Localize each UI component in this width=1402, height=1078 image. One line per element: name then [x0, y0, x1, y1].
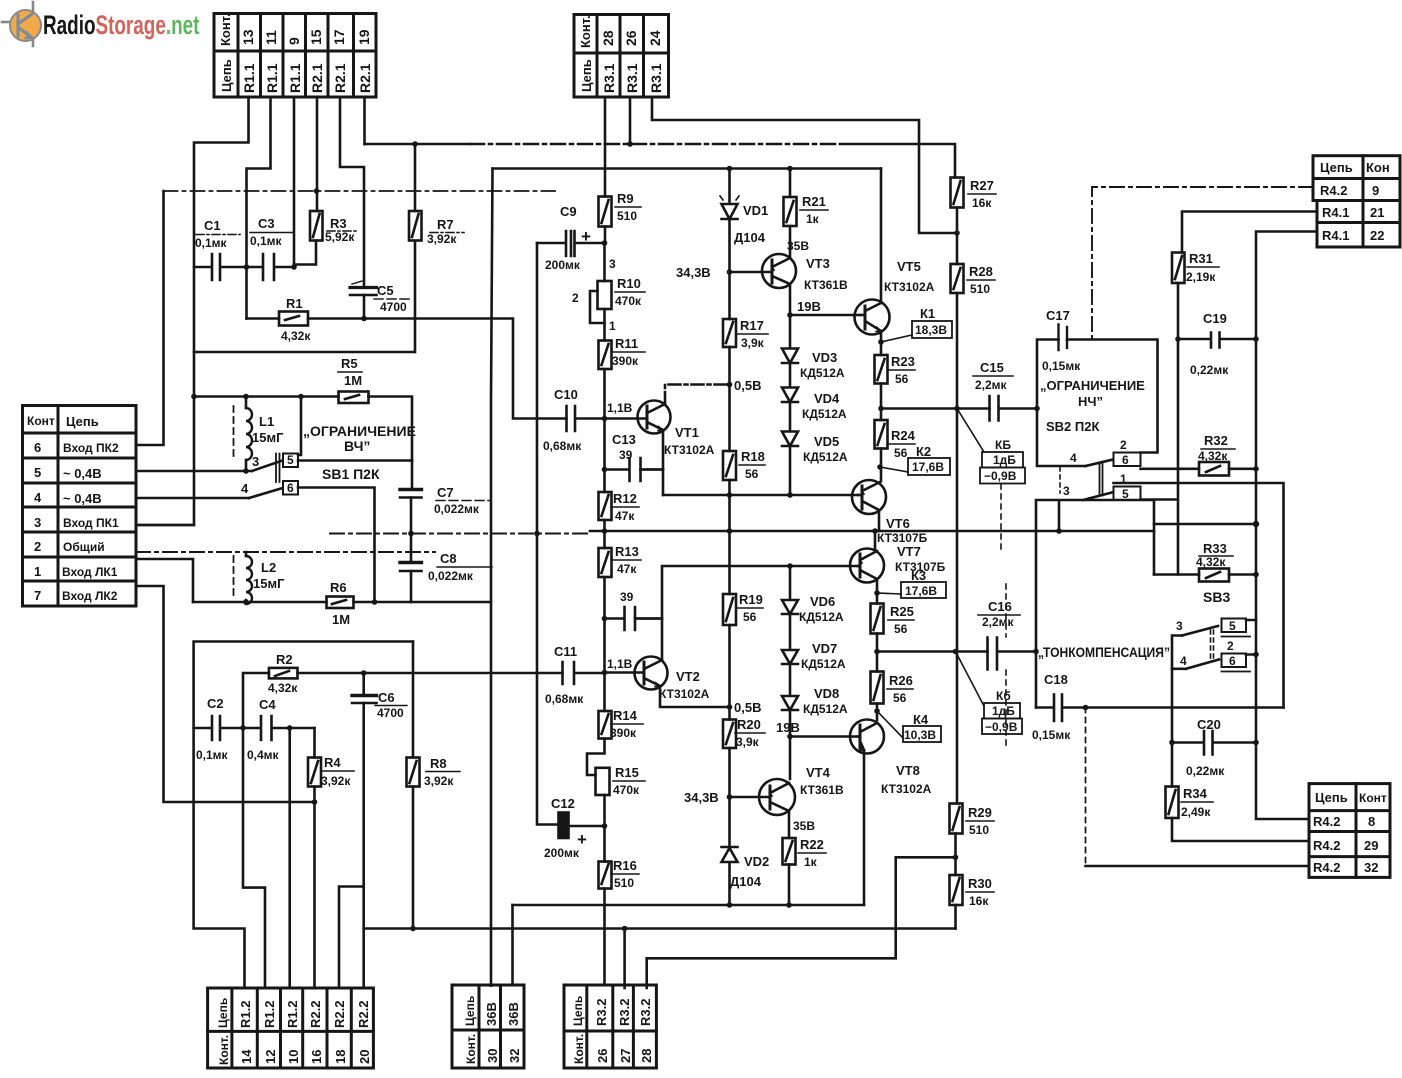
wire C6 bottom jog to table pin18: [339, 887, 364, 989]
svg-text:Д104: Д104: [734, 230, 766, 245]
resistor R15 (trimmer): [587, 739, 605, 776]
wire SB1 pin5 riser: [298, 397, 301, 456]
svg-text:КТ3102А: КТ3102А: [659, 687, 710, 701]
wire C16 node line: [877, 650, 988, 653]
wire X3.1 pin24 down right to R27/R28 junction: [652, 97, 957, 233]
svg-text:R18: R18: [741, 449, 765, 464]
rail A y144 solid part: [365, 143, 471, 146]
svg-text:10,3В: 10,3В: [904, 728, 936, 742]
svg-text:2: 2: [1120, 438, 1127, 452]
svg-text:VT1: VT1: [675, 425, 699, 440]
resistor R14: [599, 711, 612, 739]
wire Общий dash-dot y533.5 to C9 rail: [330, 533, 590, 535]
wire pin12 riser (C2/C4 node down): [243, 728, 265, 988]
wire X1 pin11 down to C3 left node: [247, 97, 271, 319]
wire row1 ВходЛК1 to R6 line: [136, 559, 193, 602]
svg-text:16к: 16к: [972, 196, 992, 210]
diode VD7: [782, 614, 798, 664]
big loop top wire: [194, 642, 413, 989]
svg-text:VT2: VT2: [676, 669, 700, 684]
svg-text:R1.2: R1.2: [285, 1001, 300, 1028]
svg-text:R12: R12: [613, 491, 637, 506]
resistor R21: [784, 197, 797, 226]
capacitor C15: [990, 396, 1038, 421]
svg-text:КТ3102А: КТ3102А: [881, 782, 932, 796]
svg-text:„ОГРАНИЧЕНИЕ: „ОГРАНИЧЕНИЕ: [1040, 378, 1145, 393]
svg-text:VT3: VT3: [806, 256, 830, 271]
svg-text:C7: C7: [437, 485, 454, 500]
switch SB3: [1203, 589, 1230, 605]
svg-text:VD2: VD2: [744, 854, 769, 869]
svg-text:R32: R32: [1204, 433, 1228, 448]
logo text: [43, 10, 200, 40]
svg-text:Конт.: Конт.: [217, 1035, 231, 1065]
svg-text:R24: R24: [891, 428, 916, 443]
svg-text:24: 24: [647, 30, 663, 46]
KB upper measure box: [957, 409, 984, 453]
svg-text:R13: R13: [615, 544, 639, 559]
svg-text:470к: 470к: [615, 294, 642, 308]
svg-text:VT8: VT8: [896, 763, 920, 778]
resistor R30: [950, 875, 963, 905]
wire X1 pin9 down to C3 right node: [293, 97, 296, 267]
wire VT1 collector up to 0,5B node: [665, 385, 728, 405]
wire VT2 base lead from rail: [603, 673, 606, 712]
resistor R34: [1171, 743, 1174, 787]
svg-text:9: 9: [1372, 183, 1379, 198]
svg-text:R4: R4: [324, 755, 341, 770]
connector table R4.2 (bottom right pins 8,29,32): [1309, 784, 1390, 878]
svg-text:47к: 47к: [615, 509, 635, 523]
svg-text:R3: R3: [330, 216, 347, 231]
resistor R17: [728, 272, 731, 319]
svg-text:0,1мк: 0,1мк: [195, 236, 228, 250]
svg-text:Конт: Конт: [1359, 791, 1387, 805]
node dot C12 right: [602, 823, 608, 829]
svg-text:3,92к: 3,92к: [321, 774, 351, 788]
wire R21 top to rail B: [789, 169, 792, 198]
wire y495 line (VT1 emitter to VT6 base): [663, 494, 858, 497]
switch SB1 contact 4-6: [249, 489, 281, 499]
node dot C14 left: [602, 616, 608, 622]
svg-text:R17: R17: [740, 318, 764, 333]
svg-text:13: 13: [240, 29, 256, 45]
svg-text:КД512А: КД512А: [803, 702, 848, 716]
label Ограничение ВЧ: [303, 423, 416, 482]
rail B y168.5 from corner x492.5 to VT5 collector: [493, 167, 882, 170]
switch SB1 contact 3-5: [252, 461, 281, 471]
svg-text:R1.1: R1.1: [264, 63, 280, 93]
connector table X6 (R3.2 pins 26,27,28): [564, 985, 656, 1068]
capacitor C12 electrolytic: [559, 813, 569, 839]
rail x537 from C9 down to C12: [537, 243, 559, 825]
wire R6 line y602: [193, 601, 491, 604]
svg-text:R33: R33: [1203, 541, 1227, 556]
resistor R28: [951, 264, 964, 293]
wire VT2 collector up to y566 line: [662, 566, 858, 660]
node dot pin6/R6 line: [372, 599, 378, 605]
wire R34 bottom to pin29 row: [1172, 818, 1309, 841]
svg-text:12: 12: [263, 1050, 278, 1064]
svg-text:39: 39: [620, 590, 634, 604]
svg-text:Кон: Кон: [1366, 160, 1390, 175]
wire VT2 emitter down to 0,5B lower node: [660, 686, 728, 707]
svg-text:R34: R34: [1183, 786, 1208, 801]
svg-text:56: 56: [745, 467, 759, 481]
svg-text:510: 510: [969, 823, 989, 837]
wire Тонкомпенсация block: [1036, 500, 1154, 708]
svg-text:C2: C2: [207, 696, 224, 711]
svg-text:36В: 36В: [484, 1002, 499, 1026]
connector table X2 (left: Конт/Цепь rows 6,5,4,3,2,1,7): [23, 406, 137, 607]
svg-text:Цепь: Цепь: [579, 59, 594, 92]
svg-text:C10: C10: [554, 387, 578, 402]
node dot R7/railA: [412, 141, 418, 147]
node dot R2 net / C6 top: [361, 670, 367, 676]
wire R29 long riser label on chain done; resistor R29: [950, 804, 963, 834]
svg-text:+: +: [581, 227, 591, 246]
svg-text:R2.1: R2.1: [357, 63, 373, 93]
svg-text:L2: L2: [261, 560, 276, 575]
svg-text:9: 9: [286, 37, 302, 45]
wire R28 bottom to C15 node: [956, 293, 959, 409]
wire R16 bottom to table pin26: [603, 889, 606, 986]
svg-text:4,32к: 4,32к: [1198, 449, 1228, 463]
svg-text:36В: 36В: [506, 1002, 521, 1026]
resistor R10 (trimmer): [598, 281, 612, 309]
connector table X5 (36V supply): [452, 985, 524, 1068]
inductor L1: [234, 397, 253, 472]
wire rail905 left end down to pin32: [511, 905, 514, 985]
svg-text:R3.2: R3.2: [594, 999, 609, 1026]
wire SB1 pin5 lead right to C7 riser: [298, 459, 412, 462]
wire X1 pin15 down to R3 top: [316, 97, 319, 211]
svg-text:17: 17: [331, 29, 347, 45]
wire C19/R31 rail down to R33 left: [1177, 339, 1180, 575]
svg-text:6: 6: [34, 440, 41, 455]
svg-text:Цепь: Цепь: [1320, 160, 1353, 175]
svg-text:КТ3107Б: КТ3107Б: [877, 531, 928, 545]
svg-text:32: 32: [1364, 860, 1378, 875]
svg-text:4: 4: [241, 481, 249, 496]
svg-text:ВЧ”: ВЧ”: [344, 438, 370, 454]
svg-text:2,19к: 2,19к: [1186, 270, 1216, 284]
svg-text:18,3В: 18,3В: [915, 323, 947, 337]
svg-text:19: 19: [356, 29, 372, 45]
svg-text:C9: C9: [560, 204, 577, 219]
wire R16 top: [603, 826, 606, 862]
resistor R13: [599, 548, 612, 577]
capacitor C1: [194, 254, 247, 280]
svg-text:R2.2: R2.2: [308, 1001, 323, 1028]
T junction C13 right on emitter lead: [641, 468, 664, 471]
diode VD1: [722, 169, 738, 273]
wire VT3 emitter to 19B node: [789, 284, 792, 315]
svg-text:Вход ЛК2: Вход ЛК2: [62, 589, 118, 603]
svg-text:SB1 П2К: SB1 П2К: [322, 466, 380, 482]
connector table X4 (bottom left R1.2/R2.2): [208, 988, 374, 1068]
node dot on shield line at R3 riser: [314, 188, 320, 194]
svg-text:1к: 1к: [804, 855, 818, 869]
svg-text:32: 32: [507, 1049, 522, 1063]
svg-text:К1: К1: [920, 306, 935, 321]
wire R10-R11: [603, 309, 606, 341]
capacitor C3: [247, 254, 295, 280]
svg-text:Вход ПК2: Вход ПК2: [63, 441, 119, 455]
svg-text:510: 510: [970, 282, 990, 296]
svg-text:3: 3: [1176, 619, 1183, 633]
capacitor C14: [605, 607, 663, 630]
wire VD5 bottom to y495: [789, 446, 792, 495]
resistor R11: [599, 341, 612, 370]
capacitor C13: [605, 458, 664, 481]
diode VD5: [782, 402, 798, 446]
svg-text:R16: R16: [613, 858, 637, 873]
node dot C3 right: [291, 264, 297, 270]
svg-text:390к: 390к: [612, 354, 639, 368]
resistor R9: [599, 197, 612, 227]
resistor R31: [1182, 212, 1317, 253]
rail D x491 vertical from rail B down to 36V table pin30: [491, 169, 493, 986]
SB2 contact 3-5: [1083, 493, 1112, 501]
wire SB3 contact3 to common riser: [1172, 636, 1186, 669]
capacitor C18: [1036, 695, 1284, 722]
svg-text:C4: C4: [259, 697, 276, 712]
svg-text:1: 1: [34, 564, 41, 579]
wire X3.1 pin28 down to R9: [604, 97, 607, 197]
resistor R24: [880, 409, 883, 421]
resistor R25: [871, 604, 884, 634]
svg-text:16к: 16к: [969, 894, 989, 908]
svg-text:1М: 1М: [332, 612, 350, 627]
dashed drop to pin32 row: [1085, 708, 1087, 867]
svg-text:17,6В: 17,6В: [912, 460, 944, 474]
svg-text:0,15мк: 0,15мк: [1032, 728, 1071, 742]
svg-text:4: 4: [1180, 654, 1187, 668]
wire R25 bottom to C16 node: [876, 634, 879, 652]
wire row6 ВходПК2 up to shield line: [136, 191, 164, 445]
svg-text:VT7: VT7: [897, 544, 921, 559]
svg-text:Общий: Общий: [63, 540, 105, 554]
connector table X3.1 (pins 28,26,24): [574, 15, 669, 98]
svg-text:510: 510: [614, 876, 634, 890]
svg-text:Цепь: Цепь: [219, 59, 234, 92]
svg-text:Цепь: Цепь: [216, 998, 230, 1028]
wire long riser C15 node down to R29: [956, 409, 959, 804]
svg-text:Д104: Д104: [730, 874, 762, 889]
wire R2 right to C11 left plate: [298, 672, 563, 675]
resistor R23: [880, 342, 883, 355]
wire C15 node line: [881, 407, 990, 410]
svg-text:4700: 4700: [380, 300, 407, 314]
svg-text:2: 2: [34, 539, 41, 554]
svg-text:C12: C12: [551, 796, 575, 811]
svg-text:R4.1: R4.1: [1322, 228, 1349, 243]
svg-text:4: 4: [1070, 451, 1077, 465]
wire VD8 bottom to VT8 base node and VT4 collector: [789, 710, 792, 779]
svg-text:R30: R30: [968, 876, 992, 891]
wire X1 pin13 down-left to left rail: [136, 97, 249, 525]
svg-text:1,1В: 1,1В: [607, 657, 633, 671]
svg-text:R1: R1: [286, 296, 303, 311]
resistor R2: [269, 668, 298, 679]
transistor VT8: [850, 720, 884, 754]
svg-text:R1.1: R1.1: [287, 63, 303, 93]
node dot top net at left rail: [191, 394, 197, 400]
wire R13 bottom down: [603, 577, 606, 673]
dash-dot pin9 shield line: [1092, 187, 1313, 340]
K1 measure box: [881, 335, 912, 342]
svg-text:VT6: VT6: [886, 516, 910, 531]
capacitor C19: [1178, 333, 1256, 348]
svg-text:3,9к: 3,9к: [741, 336, 765, 350]
diode VD4: [782, 363, 798, 402]
connector table X1 (R1.1/R2.1 pins 13,11,9,15,17,19): [214, 14, 376, 98]
svg-text:C11: C11: [554, 644, 577, 659]
svg-text:К2: К2: [916, 444, 931, 459]
svg-text:C13: C13: [612, 432, 636, 447]
svg-text:11: 11: [263, 30, 279, 45]
svg-text:8: 8: [1368, 814, 1375, 829]
svg-text:510: 510: [617, 209, 637, 223]
svg-text:„ОГРАНИЧЕНИЕ: „ОГРАНИЧЕНИЕ: [303, 423, 416, 439]
svg-text:R3.2: R3.2: [617, 999, 632, 1026]
T junction C14 right on VT2 collector: [635, 617, 662, 620]
svg-text:390к: 390к: [610, 726, 637, 740]
svg-text:17,6В: 17,6В: [905, 584, 937, 598]
resistor R33: [1154, 573, 1199, 576]
node dot C5 bottom on R1 net: [361, 316, 367, 322]
svg-text:R27: R27: [970, 178, 994, 193]
svg-text:34,3В: 34,3В: [684, 790, 719, 805]
svg-text:R6: R6: [330, 580, 347, 595]
wire right rail down to pin8 row: [1256, 743, 1309, 820]
svg-text:0,022мк: 0,022мк: [428, 569, 474, 583]
svg-text:КБ: КБ: [995, 438, 1011, 452]
svg-text:Конт.: Конт.: [218, 13, 233, 46]
svg-text:C18: C18: [1044, 672, 1068, 687]
resistor R22: [783, 838, 796, 865]
node dot VD1 top rail B: [727, 166, 733, 172]
svg-text:К3: К3: [911, 568, 926, 583]
wire VT8 base lead: [790, 735, 858, 738]
svg-text:3,92к: 3,92к: [427, 232, 457, 246]
svg-text:2: 2: [1227, 639, 1234, 653]
svg-text:2: 2: [572, 291, 579, 305]
svg-text:VD1: VD1: [743, 203, 768, 218]
svg-text:R1.2: R1.2: [238, 1001, 253, 1028]
wire X3.1 pin26 down to rail A: [629, 97, 632, 144]
diode VD8: [782, 664, 798, 710]
svg-text:C17: C17: [1046, 308, 1070, 323]
SB2 dashed link: [1059, 467, 1061, 493]
node dot R27-R28 junction: [954, 230, 960, 236]
resistor R5: [339, 392, 369, 404]
wire VT8 emitter down to rail905: [863, 751, 866, 905]
wire 19B node to VT5 base: [790, 314, 860, 317]
svg-text:Цепь: Цепь: [571, 996, 585, 1026]
svg-text:R4.2: R4.2: [1313, 860, 1340, 875]
svg-text:16: 16: [309, 1050, 324, 1064]
svg-text:0,68мк: 0,68мк: [545, 692, 584, 706]
wire VT7 top from mid rail: [874, 531, 877, 549]
inductor L2: [234, 552, 253, 604]
svg-text:3,9к: 3,9к: [736, 735, 760, 749]
svg-text:КТ3102А: КТ3102А: [884, 280, 935, 294]
svg-text:R3.1: R3.1: [624, 63, 640, 93]
svg-text:L1: L1: [259, 414, 274, 429]
wire VT1 emitter down to y495 line: [662, 430, 665, 495]
resistor R1: [279, 312, 308, 326]
wire R18 bottom to y495: [728, 480, 731, 594]
svg-text:Вход ПК1: Вход ПК1: [63, 516, 119, 530]
node dot C2/C4/R2: [240, 725, 246, 731]
wire R23 bottom to C15 node: [880, 384, 883, 409]
svg-text:5: 5: [34, 465, 41, 480]
svg-text:200мк: 200мк: [545, 258, 581, 272]
capacitor C8: [410, 534, 413, 563]
wire VT7 bottom to R25 / K3 leader: [876, 579, 879, 604]
svg-text:2,49к: 2,49к: [1181, 805, 1211, 819]
node dot 0,5B upper: [728, 347, 731, 385]
svg-text:27: 27: [618, 1049, 633, 1063]
svg-text:56: 56: [895, 372, 909, 386]
capacitor C7: [411, 461, 414, 490]
svg-text:C8: C8: [440, 551, 457, 566]
node dot VD2/rail905: [727, 902, 733, 908]
svg-text:VD4: VD4: [814, 391, 840, 406]
resistor R12: [599, 492, 612, 520]
right rail x1253.5: [1255, 469, 1258, 743]
resistor R26: [876, 652, 879, 672]
svg-text:15мГ: 15мГ: [253, 576, 285, 591]
svg-text:VD8: VD8: [814, 686, 839, 701]
node dot R4 bottom / row7 line: [312, 799, 318, 805]
svg-text:56: 56: [894, 622, 908, 636]
node dot R8 bottom on rail929: [410, 926, 416, 932]
svg-text:НЧ”: НЧ”: [1078, 394, 1103, 409]
svg-text:R19: R19: [739, 592, 763, 607]
wire R27-R28: [956, 208, 959, 265]
svg-text:4: 4: [34, 490, 42, 505]
capacitor C2: [194, 716, 243, 740]
svg-text:R4.2: R4.2: [1320, 183, 1347, 198]
svg-text:34,3В: 34,3В: [676, 265, 711, 280]
capacitor C10: [567, 406, 605, 431]
svg-text:R28: R28: [969, 264, 993, 279]
svg-text:3: 3: [609, 257, 616, 271]
capacitor C11: [563, 662, 605, 684]
wire R31 bottom to C19 node: [1177, 283, 1180, 339]
svg-text:R2.1: R2.1: [309, 63, 325, 93]
top net wire (row input to R5/SB1): [194, 395, 339, 398]
rail905 horizontal: [513, 904, 865, 907]
svg-text:21: 21: [1370, 205, 1384, 220]
node dot C13 left: [602, 467, 608, 473]
RadioStorage.net logo: [2, 2, 41, 46]
wire R24 bottom to VT6 / K2 leader: [880, 449, 883, 482]
wire VT5 collector vertical: [880, 169, 883, 304]
svg-text:10: 10: [286, 1050, 301, 1064]
svg-text:R4.2: R4.2: [1313, 838, 1340, 853]
wire R1 right net to C10: [308, 319, 567, 419]
svg-text:56: 56: [893, 691, 907, 705]
svg-text:Кб: Кб: [996, 689, 1011, 703]
svg-text:R10: R10: [617, 276, 641, 291]
wire SB2 pin5 lead: [1141, 498, 1177, 501]
svg-text:SB3: SB3: [1203, 589, 1230, 605]
svg-text:КД512А: КД512А: [800, 366, 845, 380]
